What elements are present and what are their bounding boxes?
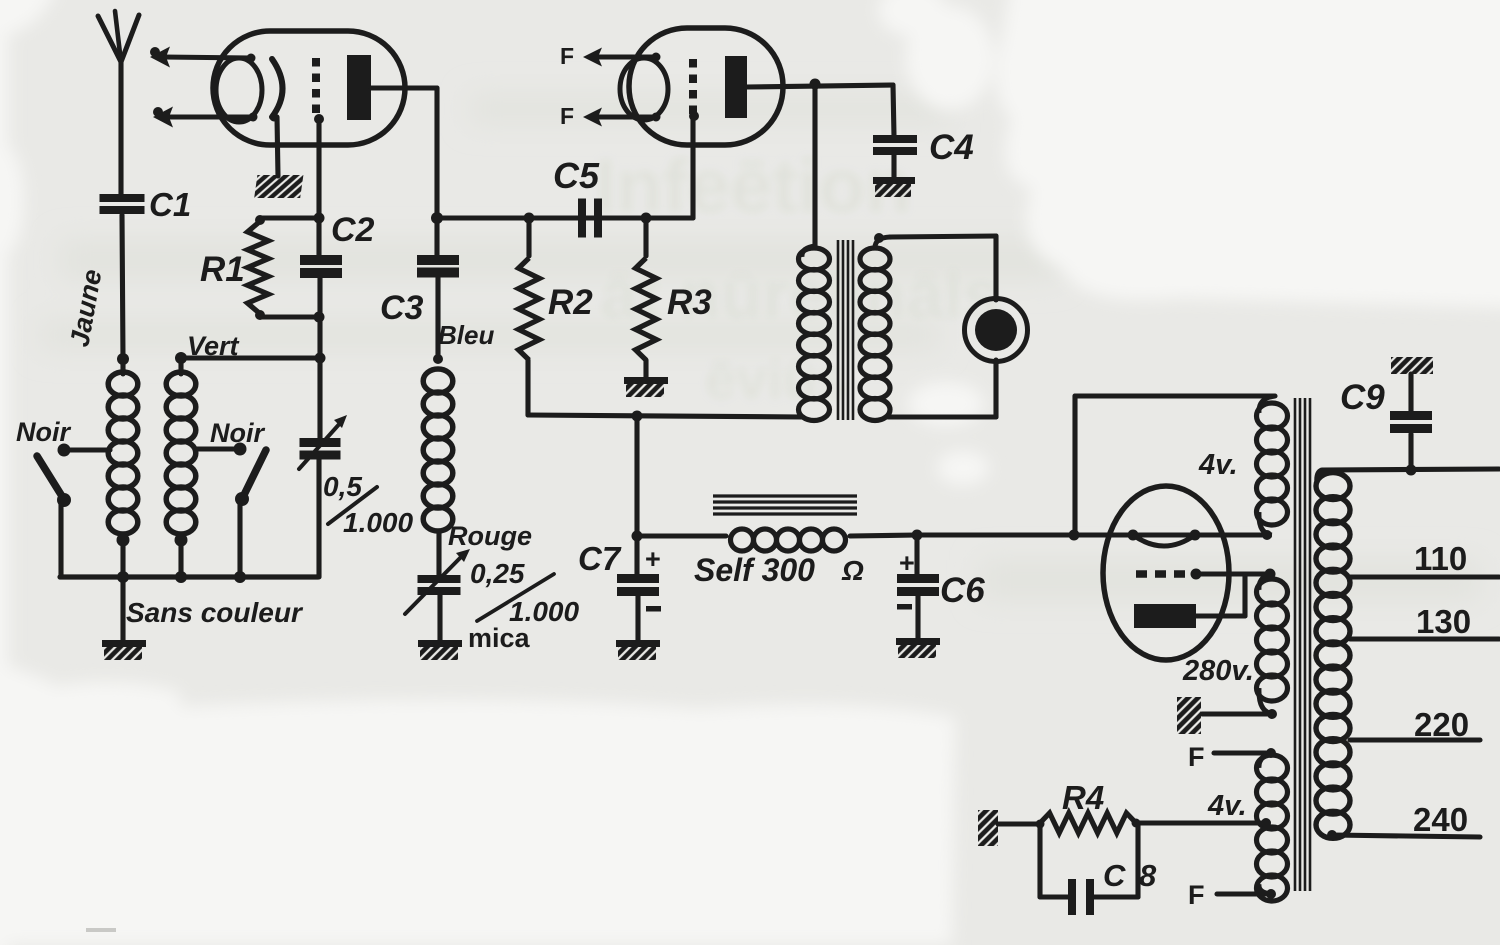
label F bottom right [1188, 880, 1205, 910]
svg-text:Ω: Ω [841, 555, 864, 586]
tube V2 anode [725, 56, 747, 118]
capacitor C3 [417, 255, 459, 278]
capacitor C5 [578, 199, 602, 238]
switch S2 [235, 450, 266, 577]
hatch C9 ground [1391, 357, 1433, 374]
label C8 [1103, 858, 1157, 893]
ground G6 [896, 638, 940, 658]
label F top [560, 43, 574, 69]
tube V1 grid arc [270, 59, 283, 122]
capacitor C2 [300, 255, 342, 278]
ground G1 [102, 640, 146, 660]
label Jaune [64, 267, 107, 349]
svg-text:240: 240 [1413, 801, 1468, 838]
transformer T2 winding 4v top [1257, 396, 1288, 540]
transformer T2 winding 280v [1257, 574, 1288, 719]
coil L2 Vert secondary [166, 352, 196, 577]
svg-text:F: F [1188, 880, 1205, 910]
wire tap 130 [1350, 636, 1499, 641]
label F bottom [560, 103, 574, 129]
wire rectifier top loop [1075, 396, 1275, 535]
label mica [468, 623, 531, 653]
svg-text:R1: R1 [200, 250, 245, 289]
label Bleu [438, 320, 494, 350]
wire VC2 to ground [437, 594, 442, 640]
wire C4 ground stem [891, 152, 896, 178]
wire C3 stem [434, 218, 439, 256]
svg-text:0,25: 0,25 [470, 558, 525, 589]
svg-text:R2: R2 [548, 283, 593, 322]
capacitor C1 [100, 194, 145, 214]
label C7 [578, 540, 622, 577]
wire Noir left tap [58, 444, 111, 457]
svg-text:1.000: 1.000 [343, 507, 413, 538]
resistor R1 [248, 223, 269, 312]
antenna [98, 11, 139, 196]
label R2 [548, 283, 593, 322]
wire VC1 to bus [316, 459, 321, 577]
svg-text:Rouge: Rouge [448, 521, 532, 551]
label 1.000 VC1 [343, 507, 413, 538]
label 4v top [1198, 449, 1238, 481]
transformer T2 mains winding [1316, 470, 1350, 840]
capacitor C4 [873, 135, 917, 155]
transformer T2 winding 4v bottom [1257, 753, 1288, 901]
tube V2 pin F bottom [583, 108, 661, 127]
node R1 top [255, 213, 325, 226]
resistor R4 [998, 813, 1141, 833]
svg-text:+: + [645, 544, 661, 574]
coil L1 Jaune [108, 353, 138, 577]
svg-text:4v.: 4v. [1207, 790, 1247, 822]
ground G4 [873, 177, 915, 197]
wire C8 left [1040, 824, 1068, 897]
label Self 300 [694, 552, 864, 588]
wire V3 anode [1196, 574, 1245, 616]
label 240 [1413, 801, 1468, 838]
tube V2 envelope [629, 28, 783, 145]
label 1.000 VC2 [509, 596, 579, 627]
transformer T2 core [1295, 398, 1310, 891]
label C5 [553, 155, 600, 196]
label R1 [200, 250, 245, 289]
wire F mid [1214, 748, 1276, 758]
svg-text:Sans couleur: Sans couleur [126, 597, 304, 628]
coil L3 [423, 369, 453, 576]
svg-text:F: F [560, 103, 574, 129]
variable capacitor VC1 [299, 415, 347, 469]
svg-text:C1: C1 [149, 186, 191, 223]
wire T1 primary bottom [528, 411, 803, 422]
svg-text:+: + [899, 548, 915, 578]
svg-text:mica: mica [468, 623, 531, 653]
label C2 [331, 211, 375, 249]
hatch 280v ground [1177, 697, 1201, 734]
svg-text:C: C [1103, 858, 1126, 893]
wire grid2 [689, 111, 699, 218]
hatch R4 ground [978, 810, 998, 846]
ground bus [60, 571, 318, 583]
svg-text:Noir: Noir [16, 417, 71, 447]
wire V1 plate [371, 88, 437, 218]
label C6 [940, 571, 985, 610]
wire C6 to rectifier [917, 530, 1267, 541]
hatch cathode ground [254, 175, 303, 198]
tube V1 cathode circle [216, 58, 262, 122]
wire C2 to Vert node [315, 278, 326, 364]
tube V1 grid dashes [312, 58, 320, 120]
label C9 [1340, 378, 1385, 417]
svg-text:8: 8 [1139, 858, 1157, 893]
label R4 [1062, 779, 1104, 816]
node C3 [431, 212, 693, 224]
wire C3 to coil L3 [433, 277, 443, 364]
capacitor C6 [897, 535, 939, 639]
svg-text:C7: C7 [578, 540, 622, 577]
wire V2 plate [746, 79, 893, 90]
tube V2 pin F top [583, 48, 661, 67]
label 280v [1182, 655, 1254, 687]
tube V1 pin F top [150, 47, 256, 68]
wire V3 to 280v [1196, 569, 1276, 580]
svg-text:C3: C3 [380, 289, 424, 327]
wire tap 110 [1350, 574, 1499, 579]
choke Self [637, 529, 917, 551]
wire T1 secondary top [874, 233, 996, 300]
bleedthrough [595, 144, 1001, 410]
wire grid1 mid [316, 218, 321, 256]
wire tap 220 [1350, 737, 1480, 742]
tube V2 cathode circle [620, 58, 668, 120]
tube V1 pin F bottom [153, 107, 258, 128]
svg-text:Bleu: Bleu [438, 320, 494, 350]
wire V1 cathode [277, 117, 278, 176]
wire Self to C6 [912, 530, 923, 541]
resistor R3 [636, 213, 657, 378]
tube V3 filament [1128, 530, 1201, 547]
tube V2 grid dashes [689, 59, 697, 117]
svg-text:130: 130 [1416, 603, 1471, 640]
svg-text:F: F [560, 43, 574, 69]
label Vert [187, 331, 240, 361]
wire C8 right [1094, 823, 1138, 897]
label 110 [1414, 540, 1467, 577]
wire antenna to coil [122, 215, 123, 359]
transformer T1 primary [799, 246, 830, 421]
svg-text:F: F [1188, 742, 1205, 772]
wire Noir right tap [196, 443, 247, 456]
wire Vert node to VC1 [317, 358, 322, 441]
svg-text:C4: C4 [929, 128, 974, 167]
wire plate to T1 [812, 84, 817, 246]
variable capacitor VC2 [405, 549, 470, 614]
transformer T1 secondary [860, 237, 892, 421]
svg-text:C6: C6 [940, 571, 985, 610]
label C1 [149, 186, 191, 223]
label Sans couleur [126, 597, 304, 628]
svg-text:0,5: 0,5 [323, 471, 362, 502]
label 130 [1416, 603, 1471, 640]
tube V3 anode [1134, 604, 1196, 628]
wire tap 240 [1332, 835, 1480, 837]
tube V1 anode [347, 55, 371, 120]
svg-text:C9: C9 [1340, 378, 1385, 417]
wire F bottom [1217, 891, 1271, 896]
label R3 [667, 283, 712, 322]
label Noir right [210, 418, 265, 448]
label Noir left [16, 417, 71, 447]
slash VC1 [328, 487, 377, 524]
wire node to C7 [632, 416, 643, 542]
label C3 [380, 289, 424, 327]
tube V3 grid dashes [1136, 569, 1202, 580]
capacitor C7 [617, 536, 661, 641]
tube V1 envelope [213, 31, 405, 145]
svg-text:R3: R3 [667, 283, 712, 322]
wire bus to ground [120, 577, 125, 640]
ground G2 [418, 640, 462, 660]
ground G3 [624, 377, 668, 397]
scan artifact dash [86, 928, 116, 932]
transformer T1 core [838, 240, 853, 420]
wire mains top [1322, 465, 1499, 476]
wire R4 to 4v [1136, 818, 1271, 828]
label 4v bottom [1207, 790, 1247, 822]
ground G5 [616, 640, 660, 660]
svg-text:280v.: 280v. [1182, 655, 1254, 687]
svg-text:Self 300: Self 300 [694, 552, 815, 588]
earphone [965, 299, 1028, 362]
capacitor C8 [1068, 879, 1094, 915]
tube V3 envelope [1103, 486, 1229, 660]
label 0,25 [470, 558, 525, 589]
label C4 [929, 128, 974, 167]
wire grid1 vertical [314, 114, 324, 218]
slash VC2 [477, 574, 554, 621]
choke Self core [713, 496, 857, 514]
wire Vert [181, 355, 320, 360]
svg-text:110: 110 [1414, 540, 1467, 577]
svg-text:4v.: 4v. [1198, 449, 1238, 481]
wire C4 stem [893, 85, 894, 136]
wire 280v to hatch [1202, 711, 1274, 716]
label F mid [1188, 742, 1205, 772]
svg-text:C5: C5 [553, 155, 600, 196]
switch S1 [37, 456, 71, 577]
label 220 [1414, 706, 1469, 743]
resistor R2 [519, 213, 540, 416]
svg-text:C2: C2 [331, 211, 375, 249]
label 0,5 [323, 471, 362, 502]
label Rouge [448, 521, 532, 551]
capacitor C9 [1390, 374, 1432, 470]
wire earphone bottom [888, 360, 996, 417]
node R1 bottom [255, 310, 325, 323]
